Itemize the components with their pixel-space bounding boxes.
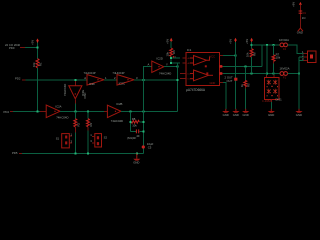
wire IC1 outC long bbox=[223, 73, 280, 75]
wire IC2B out bbox=[121, 110, 178, 112]
svg-text:+9V: +9V bbox=[292, 2, 296, 7]
label IC2F bbox=[84, 71, 96, 86]
label VCC3 bbox=[229, 39, 233, 44]
inverter IC2B bbox=[104, 105, 121, 117]
junction R8 left bbox=[129, 121, 131, 123]
wire R5 to gnd3 bbox=[244, 87, 246, 109]
svg-text:10k: 10k bbox=[165, 51, 169, 56]
svg-text:GND: GND bbox=[268, 113, 274, 117]
wire R1 down to line2 bbox=[37, 68, 39, 111]
svg-text:+5V: +5V bbox=[229, 39, 233, 44]
label IC1 value bbox=[186, 88, 206, 92]
label port OUT bbox=[225, 76, 234, 83]
svg-text:74HC04D: 74HC04D bbox=[159, 71, 171, 75]
pin PD5 bbox=[12, 151, 22, 155]
inverter IC2F bbox=[84, 75, 104, 86]
svg-text:R1: R1 bbox=[39, 62, 43, 66]
resistor R4 bbox=[170, 48, 173, 57]
junction line1 at IC2E bbox=[74, 79, 76, 81]
label R5 bbox=[240, 83, 251, 87]
svg-text:GND: GND bbox=[133, 161, 139, 165]
svg-text:GND: GND bbox=[223, 113, 229, 117]
svg-text:GND: GND bbox=[297, 31, 303, 35]
inverter IC2A bbox=[40, 105, 60, 118]
wire R4 to IC1 pins bbox=[171, 57, 180, 63]
label IC2C bbox=[112, 71, 125, 85]
label IC2E bbox=[63, 84, 85, 96]
wire DIS1 to gnd4 bbox=[270, 100, 272, 109]
junction line2 at R2 bbox=[74, 110, 76, 112]
svg-text:74HC04P: 74HC04P bbox=[84, 71, 96, 75]
label R2 bbox=[76, 122, 80, 126]
wire line2 mid bbox=[60, 110, 104, 112]
junction outC at R6 bbox=[251, 73, 253, 75]
svg-text:PD5: PD5 bbox=[12, 151, 18, 155]
pin PD0 bbox=[20, 47, 25, 49]
inverter IC2D bbox=[148, 61, 164, 73]
capacitor C4 bbox=[130, 129, 143, 133]
connector X1 body bbox=[308, 51, 317, 63]
wire line3 bbox=[22, 152, 143, 154]
label VCC4 bbox=[245, 39, 249, 44]
wire rail drop to disp1 bbox=[266, 45, 268, 74]
junction vcc rail bbox=[235, 55, 237, 57]
junction fb right bbox=[142, 110, 144, 112]
label IC1 bbox=[187, 48, 192, 52]
wire fb left vertical bbox=[129, 111, 131, 131]
svg-text:IC1: IC1 bbox=[187, 48, 192, 52]
svg-text:PD0: PD0 bbox=[9, 46, 15, 50]
wire from VCC1 to R1 bbox=[37, 43, 39, 59]
svg-text:16V02A: 16V02A bbox=[280, 67, 290, 71]
connector X1 pins bbox=[302, 50, 308, 61]
pin mark IC2D out bbox=[173, 55, 177, 59]
label F2 bbox=[279, 38, 289, 51]
display DIS1 segments bbox=[267, 80, 277, 94]
wire rail to R7 bbox=[273, 45, 275, 55]
IC1 left pin names bbox=[188, 57, 192, 81]
IC1 inner amp B bbox=[190, 70, 213, 81]
label VCC1 bbox=[31, 40, 35, 45]
IC1 pin stubs right bbox=[220, 56, 224, 83]
junction outC at disp1 bbox=[266, 73, 268, 75]
label testpoint bbox=[147, 142, 154, 149]
svg-text:OSC: OSC bbox=[83, 92, 87, 98]
junction R8 right bbox=[142, 121, 144, 123]
resistor R1 bbox=[36, 59, 39, 69]
wire PD0 to node bbox=[25, 47, 38, 49]
supply arrow VCC4 bbox=[250, 38, 253, 42]
wire R7 to outC bbox=[273, 61, 275, 73]
wire fb right vertical bbox=[142, 80, 144, 154]
svg-text:R8: R8 bbox=[132, 117, 136, 121]
label R1 bbox=[32, 62, 43, 67]
ground GND6 bbox=[133, 153, 140, 164]
wire VCC2 to R4 bbox=[170, 42, 172, 49]
net label vertical bbox=[83, 92, 87, 98]
svg-text:OUT: OUT bbox=[227, 79, 233, 83]
svg-text:C5: C5 bbox=[148, 145, 152, 149]
junction R4a bbox=[170, 57, 172, 59]
label DIS1 bbox=[262, 98, 282, 103]
svg-text:74HC04D: 74HC04D bbox=[111, 119, 123, 123]
junction C4 right bbox=[142, 130, 144, 132]
label VCC2 bbox=[166, 39, 170, 44]
inverter IC2E (pointing down) bbox=[69, 81, 82, 104]
wire IC1 gnd elbow bbox=[223, 83, 226, 109]
svg-text:A: A bbox=[148, 63, 150, 67]
switch S2 bbox=[92, 134, 101, 147]
svg-text:GND: GND bbox=[296, 113, 302, 117]
pin PD2 bbox=[15, 76, 26, 80]
svg-text:IC2B: IC2B bbox=[116, 102, 122, 106]
wire R5 drop bbox=[244, 66, 246, 80]
resistor R2 bbox=[74, 111, 77, 153]
resistor R6 bbox=[250, 49, 253, 58]
svg-text:10k: 10k bbox=[276, 56, 281, 60]
svg-text:74HC04P: 74HC04P bbox=[112, 71, 124, 75]
svg-text:PD4: PD4 bbox=[4, 110, 10, 114]
svg-text:Y: Y bbox=[166, 63, 168, 67]
wire jack gnd vertical bbox=[299, 57, 303, 109]
pin PD4 bbox=[4, 110, 14, 114]
svg-text:4F: 4F bbox=[136, 134, 140, 138]
svg-text:D1: D1 bbox=[303, 11, 307, 15]
label D1 bbox=[292, 2, 307, 35]
svg-text:R3: R3 bbox=[89, 122, 93, 126]
testpoint pad bbox=[142, 145, 145, 148]
junction line3 at R2 bbox=[74, 152, 76, 154]
junction line3 at R3 bbox=[87, 152, 89, 154]
junction rail start bbox=[251, 44, 253, 46]
junction R5 top bbox=[244, 65, 246, 67]
resistor R8 bbox=[130, 120, 143, 123]
svg-text:10k: 10k bbox=[132, 123, 137, 127]
supply arrow VCC3 bbox=[234, 38, 237, 42]
label F1 bbox=[280, 67, 290, 80]
junction IC2D out bbox=[177, 66, 179, 68]
resistor R7 bbox=[272, 55, 275, 62]
junction rail at corner bbox=[266, 44, 268, 46]
wire IC1 vcc to rail bbox=[223, 55, 236, 57]
IC1 pin pads bbox=[220, 65, 223, 75]
svg-text:16V02A: 16V02A bbox=[279, 38, 289, 42]
svg-text:GND: GND bbox=[210, 81, 216, 85]
label net PD0 bbox=[5, 43, 21, 50]
IC1 pin stubs left bbox=[180, 58, 186, 79]
wire VCC4 to R6 bbox=[251, 42, 253, 49]
svg-text:R4: R4 bbox=[172, 50, 176, 54]
wire IC2C out to corner bbox=[134, 76, 178, 80]
wire F2 to connector bbox=[288, 45, 304, 54]
junction fb left bbox=[129, 110, 131, 112]
svg-text:IC2C: IC2C bbox=[119, 82, 125, 86]
label R6 bbox=[246, 52, 257, 57]
wire IC2F out bbox=[104, 76, 117, 80]
wire rail vcc bbox=[252, 44, 281, 46]
label IC2B bbox=[111, 102, 123, 123]
wire line1 bbox=[26, 79, 88, 81]
svg-text:S1: S1 bbox=[56, 137, 60, 141]
svg-text:10k: 10k bbox=[32, 62, 36, 67]
svg-text:VCC: VCC bbox=[210, 54, 216, 58]
fuse F1 bbox=[280, 72, 288, 76]
supply arrow VCC1 bbox=[36, 38, 39, 42]
label R7 bbox=[276, 52, 281, 59]
resistor R5 bbox=[244, 80, 247, 87]
op-amp IC1 box bbox=[186, 53, 220, 86]
IC1 right pin names bbox=[210, 54, 216, 85]
label IC2D bbox=[157, 56, 172, 75]
label S2 bbox=[90, 133, 107, 143]
svg-text:µA747D666A: µA747D666A bbox=[186, 88, 206, 92]
label R4 bbox=[165, 50, 176, 57]
resistor R3 bbox=[87, 111, 90, 153]
ground GND2 bbox=[232, 109, 239, 117]
junction line2 at R1 bbox=[37, 110, 39, 112]
wire IC2D out bbox=[164, 63, 178, 67]
svg-text:IC2D: IC2D bbox=[157, 56, 163, 60]
supply arrow VCC2 bbox=[170, 38, 173, 42]
svg-text:74HC04D: 74HC04D bbox=[56, 116, 68, 120]
IC1 inner amp A bbox=[190, 56, 210, 68]
wire R6 down to outC bbox=[251, 57, 253, 73]
svg-text:1N: 1N bbox=[302, 16, 306, 20]
label R3 bbox=[89, 122, 93, 126]
svg-text:R5: R5 bbox=[247, 83, 251, 87]
label S1 bbox=[56, 133, 73, 144]
svg-text:DIS1: DIS1 bbox=[276, 98, 283, 102]
svg-text:74HC04D: 74HC04D bbox=[63, 84, 67, 96]
svg-text:PD2: PD2 bbox=[15, 76, 21, 80]
fuse F2 bbox=[280, 43, 288, 47]
junction node A bbox=[37, 47, 39, 49]
label R8 bbox=[132, 117, 138, 127]
port OUT pad bbox=[234, 78, 237, 81]
junction outC at disp2 bbox=[273, 73, 275, 75]
svg-text:R2: R2 bbox=[76, 122, 80, 126]
ground GND5 bbox=[295, 109, 302, 117]
junction line2 at R3 bbox=[87, 110, 89, 112]
wire IC2E to line2 bbox=[74, 104, 76, 112]
junction T3 branch bbox=[142, 79, 144, 81]
svg-text:IC2A: IC2A bbox=[55, 104, 61, 108]
svg-text:GND: GND bbox=[243, 113, 249, 117]
switch S1 bbox=[62, 134, 72, 148]
svg-text:10k: 10k bbox=[246, 52, 250, 57]
junction R4b bbox=[170, 62, 172, 64]
junction line3 at gnd6 bbox=[136, 152, 138, 154]
wire vertical bus to line2 bbox=[177, 63, 179, 111]
junction line1 corner bbox=[177, 79, 179, 81]
svg-text:+5V: +5V bbox=[166, 39, 170, 44]
label IC2A bbox=[55, 104, 68, 119]
wire line2 left bbox=[13, 110, 40, 112]
svg-text:R6: R6 bbox=[252, 52, 256, 56]
svg-text:(M1)4F: (M1)4F bbox=[127, 136, 136, 140]
inverter IC2C bbox=[117, 75, 134, 86]
svg-text:IC2F: IC2F bbox=[89, 82, 95, 86]
svg-text:A: A bbox=[84, 76, 86, 80]
wire VCC3 down to gnd2 bbox=[235, 42, 237, 109]
svg-text:+5V: +5V bbox=[245, 39, 249, 44]
wire up to IC2D input bbox=[143, 66, 151, 79]
svg-text:+5V: +5V bbox=[31, 40, 35, 45]
wire F1 to gnd5 bbox=[288, 73, 300, 75]
svg-text:S2: S2 bbox=[104, 135, 108, 139]
wire IC1 outB bbox=[223, 65, 262, 67]
ground GND3 bbox=[242, 109, 249, 117]
power tree D1 top right bbox=[298, 2, 303, 31]
label C4 bbox=[127, 134, 140, 140]
display DIS1 box bbox=[265, 74, 280, 100]
wire corner up to rail bbox=[261, 45, 263, 67]
ground GND4 bbox=[268, 109, 275, 117]
ground GND1 bbox=[222, 109, 229, 117]
junction rail at R7 bbox=[273, 44, 275, 46]
svg-text:GND: GND bbox=[233, 113, 239, 117]
junction F1 out bbox=[298, 73, 300, 75]
